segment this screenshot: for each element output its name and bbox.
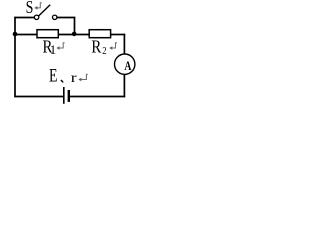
svg-text:2: 2	[102, 45, 106, 57]
svg-text:E: E	[49, 64, 57, 86]
svg-text:A: A	[124, 60, 131, 73]
svg-text:R: R	[91, 37, 101, 56]
svg-text:S: S	[26, 0, 34, 18]
svg-text:r: r	[71, 70, 78, 85]
svg-text:1: 1	[50, 43, 56, 57]
